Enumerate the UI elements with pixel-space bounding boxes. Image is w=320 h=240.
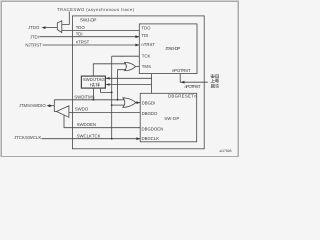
svg-text:JTMS/SWDIO: JTMS/SWDIO (19, 103, 47, 108)
svg-text:nTRST: nTRST (76, 40, 90, 45)
svg-text:JTAG-DP: JTAG-DP (165, 46, 180, 51)
svg-text:TDO: TDO (141, 26, 151, 31)
svg-text:SWDO: SWDO (75, 107, 89, 112)
svg-text:JTDI: JTDI (30, 34, 39, 39)
svg-text:DBGDI: DBGDI (142, 100, 156, 105)
svg-text:SWDITMS: SWDITMS (74, 95, 94, 100)
svg-text:DBGRESETn: DBGRESETn (168, 93, 197, 98)
svg-text:SWJ-DP: SWJ-DP (80, 18, 97, 23)
svg-text:ai17093: ai17093 (220, 149, 232, 153)
svg-text:TRACESWO (asynchronous trace): TRACESWO (asynchronous trace) (57, 7, 135, 12)
svg-text:DBGDO: DBGDO (142, 111, 158, 116)
svg-text:JTCK/SWCLK: JTCK/SWCLK (14, 135, 41, 140)
svg-text:SWDOEN: SWDOEN (77, 122, 96, 127)
svg-text:nTRST: nTRST (141, 42, 155, 47)
svg-text:DBGDOEN: DBGDOEN (142, 126, 164, 131)
svg-text:TDO: TDO (76, 25, 86, 30)
svg-text:SWD/JTAG: SWD/JTAG (83, 77, 106, 82)
svg-text:TMS: TMS (142, 64, 151, 69)
svg-text:nPOTRST: nPOTRST (185, 84, 201, 89)
svg-text:NJTRST: NJTRST (25, 42, 42, 47)
svg-text:TDI: TDI (76, 32, 83, 37)
svg-text:nPOTRST: nPOTRST (172, 68, 191, 73)
svg-text:TDI: TDI (141, 33, 148, 38)
svg-text:JTDO: JTDO (28, 25, 40, 30)
svg-text:TCK: TCK (142, 54, 151, 59)
svg-text:SWCLKTCK: SWCLKTCK (77, 133, 101, 138)
svg-text:SW-DP: SW-DP (164, 116, 179, 121)
svg-text:DBGCLK: DBGCLK (142, 136, 160, 141)
